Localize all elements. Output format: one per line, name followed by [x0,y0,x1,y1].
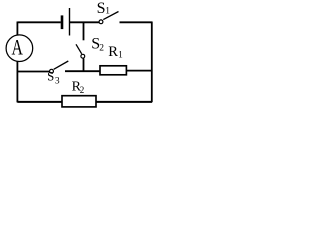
svg-text:3: 3 [55,76,60,86]
wire S3 row left [17,71,49,73]
ammeter A [6,35,33,62]
wire bottom left [17,101,62,103]
wire R1 to right edge [126,70,152,72]
wire S2 branch top [83,22,85,40]
wire S3 to R1 [65,70,100,72]
wire bottom right [96,101,152,103]
svg-text:1: 1 [105,7,110,17]
wire S2 branch bottom [83,58,85,71]
svg-text:A: A [12,35,23,60]
wire left edge lower [16,62,18,103]
wire right edge [151,22,153,103]
wire left edge upper [16,22,18,36]
svg-text:S: S [97,0,106,17]
switch S1 [99,12,118,24]
svg-text:2: 2 [80,85,85,95]
wire battery to S1 [70,21,99,23]
resistor R1 [100,66,126,75]
wire top-left horizontal [18,21,61,23]
switch S2 [76,44,85,58]
svg-text:S: S [47,70,54,84]
wire S1 to top-right corner [120,21,153,23]
svg-text:R: R [108,44,118,60]
resistor R2 [62,96,96,107]
svg-text:2: 2 [99,43,104,53]
svg-text:1: 1 [118,50,123,60]
battery B1 [61,8,70,36]
switch S3 [50,61,69,73]
